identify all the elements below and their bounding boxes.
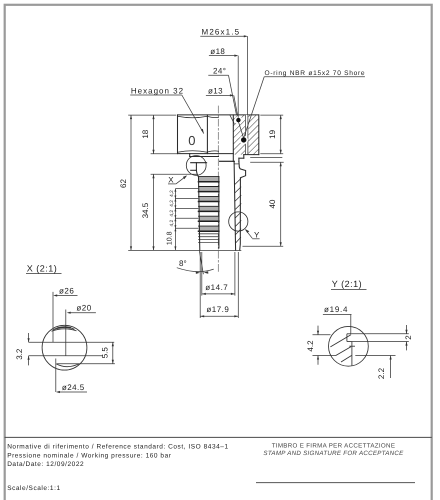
svg-text:19: 19 bbox=[268, 129, 277, 138]
svg-text:Hexagon 32: Hexagon 32 bbox=[131, 87, 184, 96]
svg-text:ø14.7: ø14.7 bbox=[205, 283, 228, 292]
svg-text:4,2: 4,2 bbox=[169, 220, 175, 227]
svg-text:2: 2 bbox=[404, 335, 413, 340]
svg-text:ø13: ø13 bbox=[208, 86, 223, 95]
svg-text:0: 0 bbox=[188, 133, 195, 148]
svg-text:Pressione nominale / Working p: Pressione nominale / Working pressure: 1… bbox=[7, 452, 172, 459]
svg-text:2.2: 2.2 bbox=[377, 367, 386, 379]
svg-text:STAMP AND SIGNATURE FOR ACCEPT: STAMP AND SIGNATURE FOR ACCEPTANCE bbox=[263, 450, 404, 457]
svg-text:4.2: 4.2 bbox=[306, 340, 315, 352]
svg-text:X: X bbox=[168, 175, 174, 184]
svg-text:4,2: 4,2 bbox=[169, 200, 175, 207]
svg-text:40: 40 bbox=[268, 199, 277, 208]
svg-text:3.2: 3.2 bbox=[15, 348, 24, 360]
svg-text:ø20: ø20 bbox=[76, 304, 91, 313]
svg-text:ø26: ø26 bbox=[59, 287, 74, 296]
svg-text:8°: 8° bbox=[179, 259, 187, 268]
svg-text:ø17.9: ø17.9 bbox=[206, 305, 229, 314]
svg-text:Normative di riferimento / Ref: Normative di riferimento / Reference sta… bbox=[7, 443, 228, 450]
svg-text:O-ring NBR ø15x2 70 Shore: O-ring NBR ø15x2 70 Shore bbox=[265, 70, 366, 77]
svg-text:62: 62 bbox=[119, 179, 128, 188]
svg-text:4,2: 4,2 bbox=[169, 210, 175, 217]
svg-text:X (2:1): X (2:1) bbox=[27, 263, 58, 273]
svg-text:18: 18 bbox=[141, 129, 150, 138]
svg-text:ø19.4: ø19.4 bbox=[324, 305, 348, 314]
svg-text:Y (2:1): Y (2:1) bbox=[332, 279, 362, 289]
svg-text:Data/Date: 12/09/2022: Data/Date: 12/09/2022 bbox=[7, 461, 84, 468]
svg-text:4,2: 4,2 bbox=[169, 190, 175, 197]
svg-text:Scale/Scale:1:1: Scale/Scale:1:1 bbox=[7, 485, 60, 492]
svg-text:TIMBRO E FIRMA PER ACCETTAZION: TIMBRO E FIRMA PER ACCETTAZIONE bbox=[272, 443, 396, 450]
svg-text:M26x1.5: M26x1.5 bbox=[202, 27, 241, 36]
svg-text:24°: 24° bbox=[213, 66, 226, 75]
svg-text:Y: Y bbox=[254, 230, 260, 239]
svg-text:ø24.5: ø24.5 bbox=[62, 383, 85, 392]
svg-text:5.5: 5.5 bbox=[100, 347, 109, 359]
svg-text:34.5: 34.5 bbox=[141, 202, 150, 218]
svg-text:ø18: ø18 bbox=[210, 47, 225, 56]
svg-text:10.8: 10.8 bbox=[167, 231, 174, 245]
